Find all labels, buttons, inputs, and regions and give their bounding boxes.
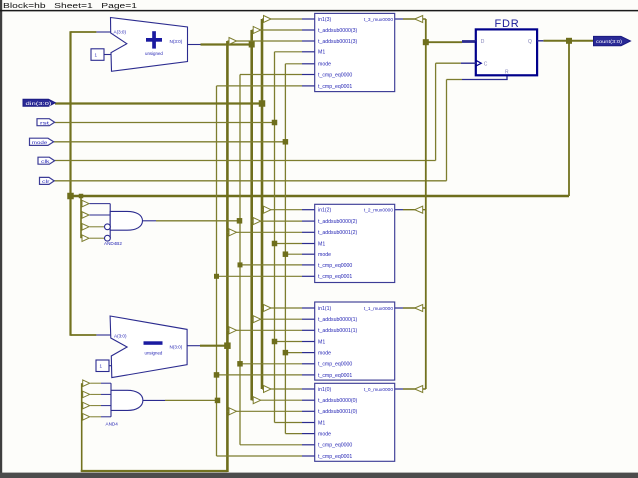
svg-text:R: R (505, 70, 509, 76)
svg-text:clr: clr (42, 179, 50, 185)
svg-text:mode: mode (318, 252, 331, 258)
svg-text:t_addsub0000(1): t_addsub0000(1) (318, 317, 357, 323)
svg-text:t_addsub0001(2): t_addsub0001(2) (318, 230, 357, 236)
svg-text:AND4B2: AND4B2 (104, 241, 122, 246)
svg-text:in1(3): in1(3) (318, 17, 332, 23)
svg-text:mode: mode (318, 351, 331, 357)
svg-text:t_addsub0000(3): t_addsub0000(3) (318, 28, 357, 34)
svg-text:unsigned: unsigned (145, 51, 163, 56)
svg-text:t_addsub0000(0): t_addsub0000(0) (318, 398, 357, 404)
svg-text:t_cmp_eq0001: t_cmp_eq0001 (318, 274, 352, 280)
svg-text:D: D (481, 39, 485, 45)
svg-text:t_cmp_eq0000: t_cmp_eq0000 (318, 443, 352, 449)
svg-text:Q: Q (528, 39, 532, 45)
svg-text:t_cmp_eq0000: t_cmp_eq0000 (318, 72, 352, 78)
svg-text:mode: mode (318, 432, 331, 438)
svg-text:t_3_mux0000: t_3_mux0000 (364, 17, 393, 23)
svg-text:A(3:0): A(3:0) (114, 30, 127, 35)
svg-text:C: C (484, 61, 488, 67)
svg-text:count(3:0): count(3:0) (596, 39, 623, 44)
svg-text:t_addsub0001(0): t_addsub0001(0) (318, 409, 357, 415)
svg-text:A(3:0): A(3:0) (114, 334, 127, 339)
svg-text:in1(2): in1(2) (318, 208, 332, 214)
svg-text:FDR: FDR (494, 18, 519, 30)
svg-text:mode: mode (32, 140, 48, 146)
svg-text:t_cmp_eq0000: t_cmp_eq0000 (318, 362, 352, 368)
svg-text:t_cmp_eq0001: t_cmp_eq0001 (318, 454, 352, 460)
svg-text:t_addsub0001(1): t_addsub0001(1) (318, 328, 357, 334)
svg-text:M1: M1 (318, 241, 325, 247)
svg-text:M1: M1 (318, 50, 325, 56)
svg-text:in1(1): in1(1) (318, 306, 332, 312)
svg-text:t_cmp_eq0000: t_cmp_eq0000 (318, 263, 352, 269)
svg-text:M1: M1 (318, 420, 325, 426)
svg-text:Block=hb Sheet=1 Page=1: Block=hb Sheet=1 Page=1 (3, 1, 137, 10)
svg-text:t_cmp_eq0001: t_cmp_eq0001 (318, 84, 352, 90)
svg-text:N(3:0): N(3:0) (170, 344, 183, 349)
svg-text:N(3:0): N(3:0) (170, 39, 183, 44)
svg-text:t_0_mux0000: t_0_mux0000 (364, 387, 393, 393)
svg-text:in1(0): in1(0) (318, 387, 332, 393)
svg-text:AND4: AND4 (106, 421, 119, 426)
svg-text:din(3:0): din(3:0) (26, 101, 53, 106)
svg-text:M1: M1 (318, 339, 325, 345)
svg-text:rst: rst (40, 120, 50, 126)
svg-text:t_addsub0000(2): t_addsub0000(2) (318, 219, 357, 225)
svg-text:t_2_mux0000: t_2_mux0000 (364, 208, 393, 214)
svg-text:t_1_mux0000: t_1_mux0000 (364, 306, 393, 312)
svg-text:t_cmp_eq0001: t_cmp_eq0001 (318, 373, 352, 379)
svg-text:mode: mode (318, 62, 331, 68)
svg-text:unsigned: unsigned (145, 350, 163, 355)
svg-text:clk: clk (41, 159, 50, 165)
svg-text:t_addsub0001(3): t_addsub0001(3) (318, 39, 357, 45)
